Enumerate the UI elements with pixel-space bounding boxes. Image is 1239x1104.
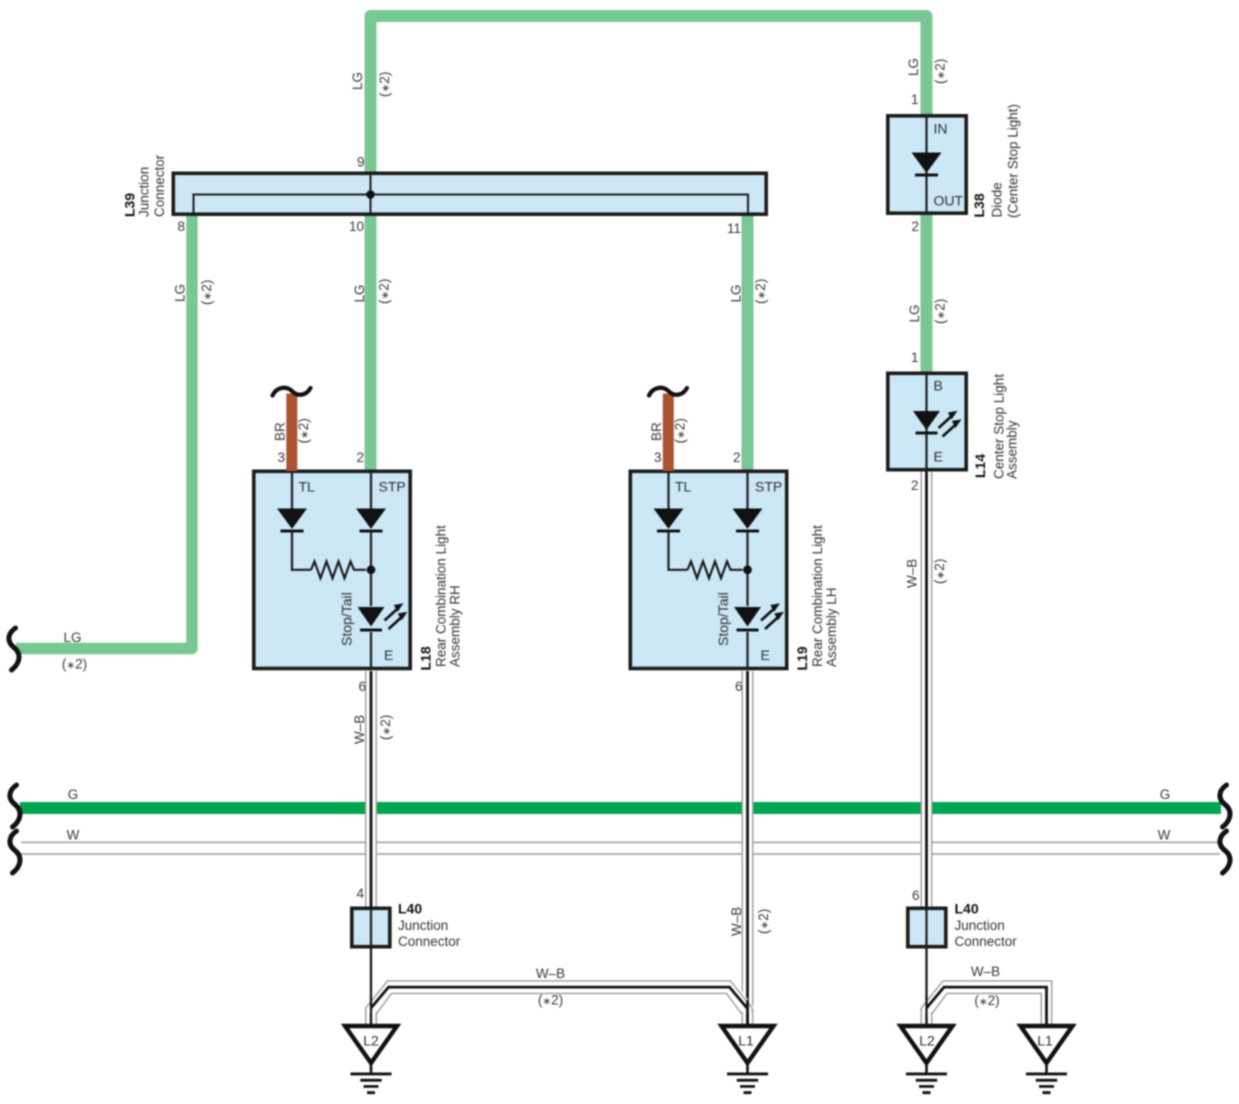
junction connector L40 left box bbox=[352, 908, 390, 946]
svg-text:(∗2): (∗2) bbox=[377, 72, 392, 97]
rear combination light L18 box bbox=[254, 471, 410, 668]
L18 TL branch line bbox=[292, 473, 311, 570]
svg-text:11: 11 bbox=[727, 221, 741, 236]
LED arrows in L19 bbox=[761, 603, 784, 629]
svg-text:2: 2 bbox=[911, 219, 919, 234]
break symbol LG left bbox=[9, 628, 19, 670]
svg-text:LG: LG bbox=[63, 630, 81, 645]
svg-text:6: 6 bbox=[735, 679, 743, 694]
junction connector L40 right box bbox=[908, 908, 946, 946]
L39 reference label bbox=[122, 193, 138, 217]
svg-text:(∗2): (∗2) bbox=[753, 279, 768, 304]
node LG label pin8 wire bbox=[173, 284, 188, 302]
svg-text:(∗2): (∗2) bbox=[933, 59, 948, 84]
diode L38 box bbox=[888, 116, 966, 213]
svg-text:Connector: Connector bbox=[398, 934, 461, 949]
wire W-B from L18 pin6 down to L40 (white band, gray edges, black core) bbox=[365, 671, 377, 907]
break symbol W right bbox=[1220, 831, 1230, 873]
svg-text:3: 3 bbox=[277, 450, 285, 465]
svg-text:IN: IN bbox=[934, 121, 948, 137]
svg-text:L19: L19 bbox=[794, 646, 810, 670]
svg-text:Junction: Junction bbox=[955, 918, 1005, 933]
ground L2 (right) bbox=[901, 1026, 953, 1094]
svg-text:L18: L18 bbox=[418, 646, 434, 670]
svg-text:W–B: W–B bbox=[729, 907, 744, 936]
wire W-B from L14 pin2 down to right L40 bbox=[921, 471, 933, 907]
svg-text:LG: LG bbox=[729, 284, 744, 302]
resistor in L19 bbox=[688, 561, 743, 578]
svg-text:(∗2): (∗2) bbox=[378, 715, 393, 740]
svg-text:3: 3 bbox=[654, 450, 662, 465]
wire W bus bottom edge bbox=[21, 853, 1220, 855]
svg-text:L2: L2 bbox=[363, 1033, 379, 1049]
L14 reference label bbox=[972, 454, 988, 478]
wire LG from L39 pin8 down and left to break bbox=[16, 214, 192, 649]
svg-text:9: 9 bbox=[357, 155, 365, 170]
wire W-B from L19 pin6 down to ground L1 bbox=[742, 671, 754, 1026]
break symbol W left bbox=[10, 831, 20, 873]
svg-text:TL: TL bbox=[299, 479, 316, 495]
svg-text:E: E bbox=[934, 449, 943, 465]
svg-text:Assembly LH: Assembly LH bbox=[824, 587, 839, 667]
junction dot in L18 bbox=[367, 565, 376, 574]
svg-text:L1: L1 bbox=[738, 1033, 754, 1049]
svg-text:LG: LG bbox=[907, 304, 922, 322]
svg-text:STP: STP bbox=[755, 479, 782, 495]
svg-text:LG: LG bbox=[350, 72, 365, 90]
node LG label top-left vertical bbox=[350, 72, 365, 90]
svg-text:L14: L14 bbox=[972, 454, 988, 478]
svg-text:L39: L39 bbox=[122, 193, 138, 217]
svg-text:(∗2): (∗2) bbox=[673, 418, 688, 443]
svg-text:W–B: W–B bbox=[352, 715, 367, 744]
svg-text:(∗2): (∗2) bbox=[199, 280, 214, 305]
node BR label L19 bbox=[649, 422, 664, 441]
L19 reference label bbox=[794, 646, 810, 670]
wire LG top loop: L39 pin9 up, across, down to L38 pin1 bbox=[371, 16, 927, 173]
svg-text:LG: LG bbox=[906, 58, 921, 76]
svg-text:Junction: Junction bbox=[137, 167, 152, 217]
break symbol G right bbox=[1220, 785, 1230, 827]
svg-text:2: 2 bbox=[911, 478, 919, 493]
svg-text:Connector: Connector bbox=[152, 154, 167, 217]
diode TL in L19 bbox=[655, 509, 683, 533]
ground L1 (left) bbox=[722, 1026, 774, 1094]
svg-text:Diode: Diode bbox=[990, 182, 1005, 217]
svg-text:G: G bbox=[1160, 787, 1171, 802]
L14 through line bbox=[925, 374, 927, 468]
L39 internal bus bar bbox=[194, 195, 749, 214]
svg-text:10: 10 bbox=[349, 219, 364, 234]
svg-text:STP: STP bbox=[379, 479, 406, 495]
diode symbol in L38 bbox=[913, 153, 941, 177]
svg-text:G: G bbox=[68, 787, 79, 802]
svg-text:Rear Combination Light: Rear Combination Light bbox=[434, 525, 449, 667]
svg-text:(∗2): (∗2) bbox=[377, 279, 392, 304]
LED stop/tail in L19 bbox=[734, 607, 761, 627]
wire W bus top edge bbox=[21, 841, 1220, 843]
L40 right through line bbox=[925, 908, 927, 948]
node LG label pin11 wire bbox=[729, 284, 744, 302]
svg-text:(∗2): (∗2) bbox=[538, 993, 563, 1008]
svg-text:2: 2 bbox=[733, 450, 741, 465]
node LG label pin10 wire bbox=[352, 284, 367, 302]
diode TL in L18 bbox=[278, 509, 306, 533]
svg-text:(∗2): (∗2) bbox=[974, 993, 999, 1008]
node W-B label left vertical bbox=[352, 715, 367, 744]
svg-text:E: E bbox=[761, 647, 770, 663]
svg-text:Assembly: Assembly bbox=[1005, 420, 1020, 479]
svg-text:L1: L1 bbox=[1037, 1033, 1053, 1049]
junction connector L39 box bbox=[173, 173, 766, 214]
L40 left through line bbox=[370, 908, 372, 948]
LED arrows in L18 bbox=[385, 603, 408, 629]
svg-text:Stop/Tail: Stop/Tail bbox=[715, 592, 731, 646]
svg-text:L40: L40 bbox=[955, 901, 979, 917]
svg-text:L38: L38 bbox=[971, 193, 987, 217]
wire black verticals restored over branch underlay bbox=[370, 996, 372, 1026]
svg-text:W: W bbox=[67, 828, 80, 843]
svg-text:(∗2): (∗2) bbox=[296, 418, 311, 443]
svg-text:(∗2): (∗2) bbox=[756, 909, 771, 934]
svg-text:B: B bbox=[934, 378, 943, 394]
svg-text:Stop/Tail: Stop/Tail bbox=[339, 592, 355, 646]
wire BR into L18 pin3 bbox=[286, 394, 297, 472]
svg-text:W–B: W–B bbox=[971, 964, 1000, 979]
svg-text:8: 8 bbox=[177, 219, 185, 234]
svg-text:Junction: Junction bbox=[398, 918, 448, 933]
resistor in L18 bbox=[311, 561, 366, 578]
break symbol G left bbox=[10, 785, 20, 827]
svg-text:LG: LG bbox=[352, 284, 367, 302]
svg-text:E: E bbox=[384, 647, 393, 663]
svg-text:Rear Combination Light: Rear Combination Light bbox=[810, 525, 825, 667]
svg-text:(∗2): (∗2) bbox=[932, 559, 947, 584]
svg-text:BR: BR bbox=[649, 422, 664, 441]
rear combination light L19 box bbox=[630, 471, 786, 668]
svg-text:(∗2): (∗2) bbox=[62, 657, 87, 672]
L19 TL branch line bbox=[669, 473, 688, 570]
svg-text:6: 6 bbox=[358, 679, 366, 694]
node LG label top-right vertical bbox=[906, 58, 921, 76]
svg-text:W–B: W–B bbox=[905, 559, 920, 588]
break squiggle BR L18 bbox=[273, 388, 311, 396]
wire LG from L39 pin11 down to L19 pin2 bbox=[742, 214, 754, 471]
L19 STP branch line bbox=[746, 473, 748, 668]
wire LG from L38 pin2 down to L14 pin1 bbox=[921, 214, 933, 372]
node LG label L38-L14 wire bbox=[907, 304, 922, 322]
svg-text:W: W bbox=[1158, 828, 1171, 843]
node BR label L18 bbox=[273, 422, 288, 441]
L39 pin9-10 through line bbox=[370, 175, 372, 214]
svg-text:Connector: Connector bbox=[955, 934, 1018, 949]
svg-text:(Center Stop Light): (Center Stop Light) bbox=[1006, 104, 1021, 218]
svg-text:Assembly RH: Assembly RH bbox=[448, 585, 463, 667]
svg-text:L40: L40 bbox=[398, 901, 422, 917]
LED arrows in L14 bbox=[939, 411, 962, 437]
LED stop/tail in L18 bbox=[358, 607, 385, 627]
svg-text:BR: BR bbox=[273, 422, 288, 441]
svg-text:OUT: OUT bbox=[934, 193, 964, 209]
break squiggle BR L19 bbox=[649, 388, 687, 396]
svg-text:L2: L2 bbox=[919, 1033, 935, 1049]
node W-B label right vertical bbox=[905, 559, 920, 588]
L38 through line bbox=[925, 117, 927, 212]
svg-text:(∗2): (∗2) bbox=[933, 299, 948, 324]
ground L2 (left) bbox=[345, 1026, 397, 1094]
wire single black below left L40 to ground bbox=[370, 948, 372, 1026]
svg-text:LG: LG bbox=[173, 284, 188, 302]
diode STP in L18 bbox=[357, 509, 385, 533]
L38 reference label bbox=[971, 193, 987, 217]
svg-text:1: 1 bbox=[911, 92, 919, 107]
svg-text:6: 6 bbox=[912, 888, 920, 903]
svg-text:4: 4 bbox=[356, 886, 364, 901]
wire LG from L39 pin10 down to L18 pin2 bbox=[365, 214, 377, 471]
L18 reference label bbox=[418, 646, 434, 670]
center stop light L14 box bbox=[888, 373, 966, 469]
node W-B label L19 vertical bbox=[729, 907, 744, 936]
svg-text:2: 2 bbox=[356, 450, 364, 465]
wire single black below right L40 to ground bbox=[925, 948, 927, 1026]
svg-text:W–B: W–B bbox=[536, 966, 565, 981]
label Stop/Tail bbox=[339, 592, 355, 646]
ground L1 (right) bbox=[1021, 1026, 1073, 1094]
junction node dot in L39 bbox=[366, 190, 375, 199]
wire BR into L19 pin3 bbox=[663, 394, 674, 472]
diode STP in L19 bbox=[734, 509, 762, 533]
svg-text:TL: TL bbox=[675, 479, 692, 495]
wire G bus (green, full width) bbox=[20, 802, 1221, 814]
L18 STP branch line bbox=[370, 473, 372, 668]
label Stop/Tail bbox=[715, 592, 731, 646]
svg-text:1: 1 bbox=[911, 350, 919, 365]
LED symbol in L14 bbox=[913, 411, 940, 430]
junction dot in L19 bbox=[743, 565, 752, 574]
